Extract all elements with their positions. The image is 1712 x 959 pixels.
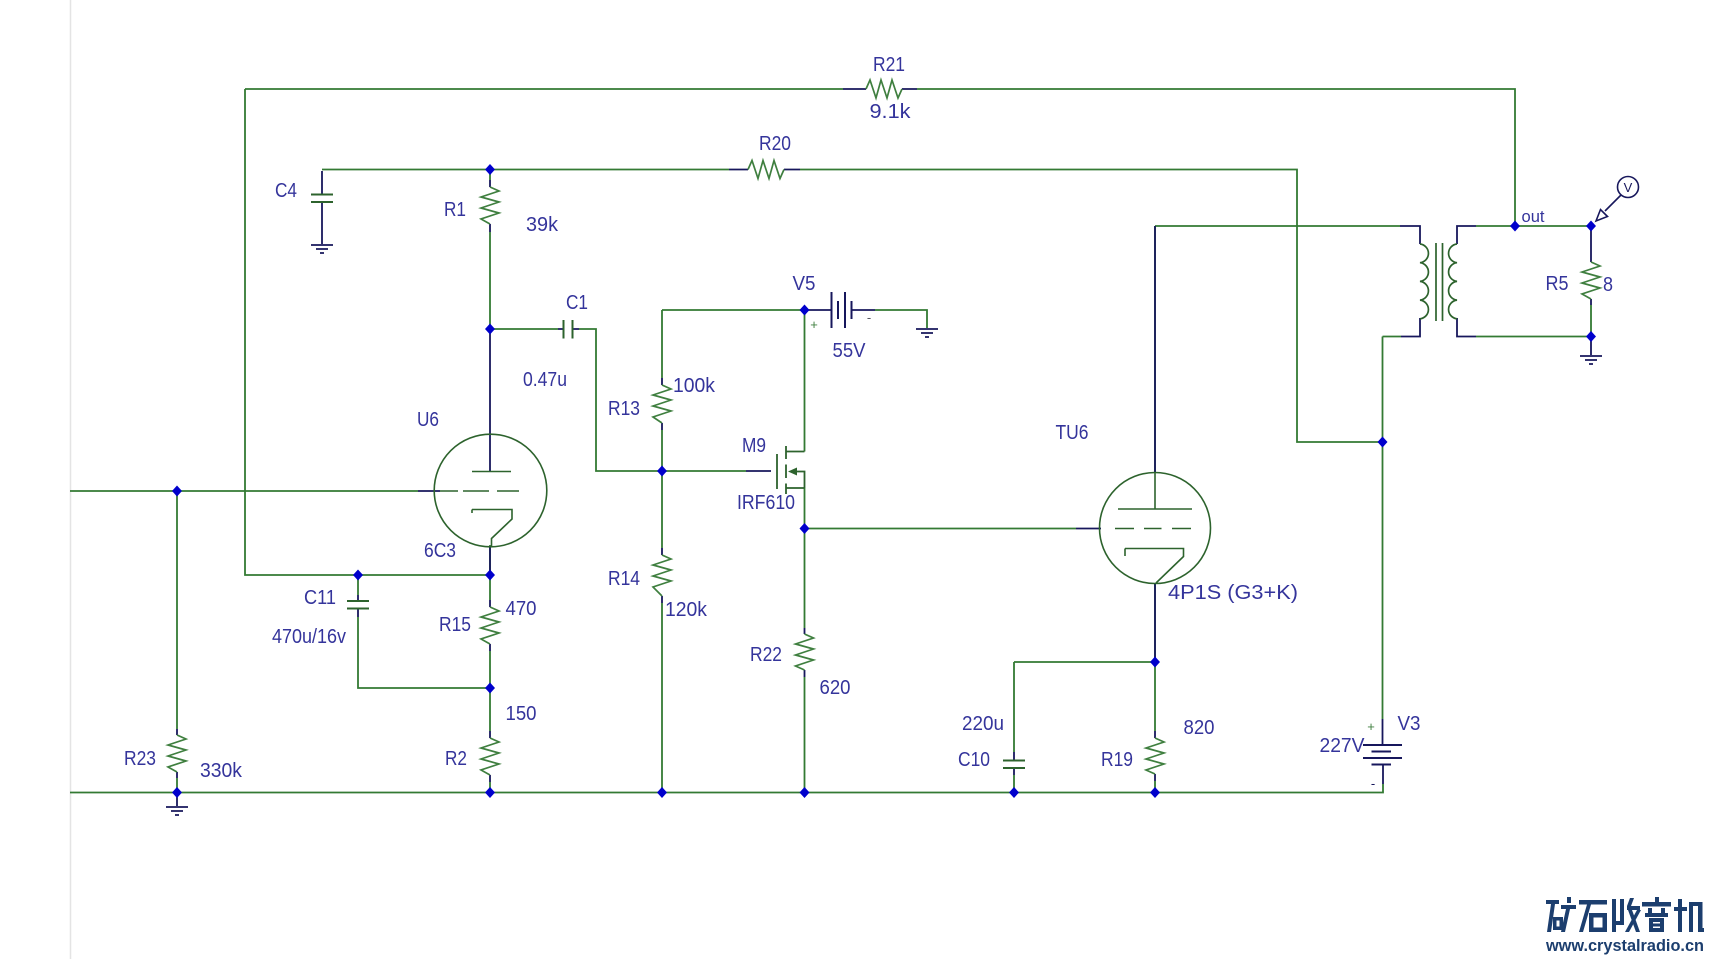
capacitor C1 plates [564,320,573,339]
ground under R23 [166,807,188,815]
resistor R22 leads [804,628,806,677]
resistor R14 leads [661,548,663,603]
capacitor C10 plates [1003,761,1025,769]
wire TU6 plate lead upper [1154,226,1156,473]
resistor R1 leads [489,180,491,232]
battery V3 top lead [1382,719,1384,744]
node C10 bus [1009,787,1019,798]
M9 gate lead [746,470,771,472]
svg-text:150: 150 [506,703,537,725]
ground lead below R23 [176,793,178,807]
navy lead stubs [177,89,1591,806]
wire C10 bottom lead [1013,775,1015,793]
node V5/drain [800,305,810,316]
svg-text:R15: R15 [439,614,471,636]
node R22 bus [800,787,810,798]
resistor R13 body [653,385,671,423]
resistor R22 body [796,634,814,670]
resistor R5 leads [1590,226,1592,305]
wire V5 right to ground [875,310,927,328]
svg-text:TU6: TU6 [1056,422,1089,444]
svg-text:4P1S (G3+K): 4P1S (G3+K) [1168,582,1298,604]
wire secondary top to out [1476,225,1591,227]
wire gate node to M9 [662,470,746,472]
node R20/R1/C4 [485,164,495,175]
transformer primary bottom lead navy [1401,318,1420,337]
wire R15 bottom [489,651,491,731]
faint page fold line [70,0,72,959]
svg-text:V3: V3 [1398,713,1421,735]
node R2 bus [485,787,495,798]
svg-text:120k: 120k [665,599,708,621]
TU6 plate lead navy [1154,226,1156,473]
wire M9 source down to node [804,488,806,529]
svg-text:R20: R20 [759,133,791,155]
svg-text:227V: 227V [1320,735,1366,757]
svg-text:+: + [1367,719,1375,734]
capacitor C11 leads [357,595,359,617]
resistor R5 body [1582,262,1600,299]
svg-text:620: 620 [820,677,851,699]
wire R23 top [176,491,178,729]
wire R19 top [1154,662,1156,731]
svg-text:R5: R5 [1546,273,1569,295]
wire R13 row to V5 [662,309,804,311]
wire R19 bottom [1154,781,1156,793]
svg-text:IRF610: IRF610 [737,492,795,514]
char yin [1642,897,1671,932]
node R5 bottom [1586,331,1596,342]
wire C11 top lead [357,575,359,595]
resistor R21 leads [843,88,917,90]
node R14 bus [657,787,667,798]
wire TU6 cathode lead [1154,583,1156,662]
wire R14 bottom [661,603,663,793]
svg-text:www.crystalradio.cn: www.crystalradio.cn [1545,937,1704,955]
svg-text:-: - [1371,776,1375,791]
resistor R15 body [481,607,499,644]
CAPACITOR PLATES [311,195,1025,769]
svg-text:R14: R14 [608,568,640,590]
transformer primary top lead navy [1400,226,1420,244]
wire R22 bottom [804,677,806,793]
svg-text:R13: R13 [608,398,640,420]
svg-text:0.47u: 0.47u [523,369,567,391]
resistor R20 body [748,161,784,179]
U6 plate lead navy [489,329,491,472]
wire cathode node row [1014,661,1155,663]
svg-text:V: V [1624,180,1633,195]
svg-text:C4: C4 [275,180,297,202]
char shi [1579,900,1607,932]
svg-text:8: 8 [1603,274,1613,296]
wire R22 top [804,529,806,629]
transformer TX secondary winding [1449,244,1457,319]
svg-text:M9: M9 [742,435,766,457]
wire input row [70,490,418,492]
char kuang [1546,897,1576,932]
U6 cathode lead navy [489,547,491,575]
wire R5 bottom stub [1590,305,1592,337]
resistor R14 body [653,555,671,596]
wire secondary bottom row [1476,336,1591,338]
svg-text:820: 820 [1184,717,1215,739]
battery V3 bottom lead [1382,765,1384,784]
transformer secondary top lead navy [1457,226,1476,244]
resistor R19 leads [1154,731,1156,781]
svg-text:U6: U6 [417,409,439,431]
svg-text:C11: C11 [304,587,336,609]
resistor R20 leads [729,169,800,171]
svg-text:9.1k: 9.1k [870,101,912,123]
capacitor C4 plates [311,195,333,203]
svg-text:R23: R23 [124,748,156,770]
triode U6 [434,434,547,547]
resistor R15 leads [489,600,491,651]
voltmeter probe [1596,177,1639,222]
char shou [1612,898,1641,932]
wire R1 top stub [489,170,491,181]
mosfet M9 arrow [788,468,797,476]
wire primary bottom [1383,336,1402,338]
svg-text:R21: R21 [873,54,905,76]
svg-text:39k: 39k [526,214,559,236]
ground lead below R5 node [1590,337,1592,356]
node R23 bus [172,787,182,798]
svg-text:470u/16v: 470u/16v [272,626,346,648]
node source [800,523,810,534]
node gate [657,466,667,477]
wire TU6 plate row [1155,225,1400,227]
tube TU6 [1100,473,1211,584]
transformer core [1436,243,1443,321]
wire top feedback row left segment [245,88,843,90]
svg-text:C1: C1 [566,292,588,314]
capacitor C10 leads [1013,752,1015,775]
TU6 grid lead navy [1076,528,1101,530]
ZIGZAG RESISTOR BODIES (green) [168,80,1600,775]
wire R13 top lead [661,310,663,378]
svg-text:100k: 100k [673,375,716,397]
resistor R2 body [481,738,499,775]
ground under R5 [1580,356,1602,364]
node R15/C11/R2 [485,683,495,694]
wire C1 right to gate node [579,329,662,471]
wire C1 left [490,328,558,330]
wire R23 bottom [176,778,178,793]
node cathode U6 [485,570,495,581]
BATTERY V5 plates [832,292,852,328]
resistor R21 body [866,80,902,98]
wire left drop from top corner [245,89,490,575]
ground under C4 [311,245,333,253]
resistor R23 body [168,735,186,772]
svg-text:6C3: 6C3 [424,540,456,562]
resistor R23 leads [176,729,178,778]
mosfet M9 [777,446,805,494]
svg-text:220u: 220u [962,713,1004,735]
wire R2 bottom [489,782,491,793]
capacitor C4 lead top [321,171,323,194]
transformer TX primary winding [1420,244,1428,319]
capacitor C11 plates [347,601,369,609]
svg-text:-: - [867,310,871,325]
battery V5 leads [805,309,876,311]
svg-text:+: + [810,317,818,332]
ground at V5 [916,329,938,337]
U6 grid lead [418,490,440,492]
capacitor C4 lead bottom [321,203,323,245]
svg-text:C10: C10 [958,749,990,771]
wire R13 bottom [661,430,663,471]
resistor R19 body [1146,738,1164,774]
svg-text:55V: 55V [833,340,867,362]
char ji [1674,899,1704,932]
svg-text:R2: R2 [445,748,467,770]
wire V3 vertical [1382,337,1384,720]
WATERMARK 矿石收音机 drawn as shapes [1546,897,1704,932]
transformer secondary bottom lead navy [1457,318,1476,337]
wire source node to TU6 grid [805,528,1077,530]
wire M9 drain up to V5 node [804,310,806,452]
BATTERY V3 plates [1363,745,1402,765]
node out [1510,221,1520,232]
node R20/V3 [1378,437,1388,448]
resistor R13 leads [661,378,663,430]
resistor R1 body [481,187,499,224]
svg-text:V5: V5 [793,273,816,295]
svg-text:out: out [1522,207,1545,226]
wire C10 top lead [1013,662,1015,752]
capacitor C1 leads [558,328,579,330]
svg-text:330k: 330k [200,760,243,782]
wire R1 bottom to C1 node [489,232,491,329]
node R19 bus [1150,787,1160,798]
TU6 cathode lead navy [1154,584,1156,662]
node voltmeter [1586,221,1596,232]
wire R14 top [661,471,663,548]
wire R20 row [322,170,1383,443]
node R1/C1/plate [485,324,495,335]
svg-text:470: 470 [506,598,537,620]
wire bottom bus [70,784,1383,793]
wire top feedback row right segment [917,89,1515,226]
node C11 top [353,570,363,581]
node input [172,486,182,497]
wire C11 bottom lead to R15 node [358,617,490,688]
node TU6 cathode [1150,657,1160,668]
svg-text:R1: R1 [444,199,466,221]
resistor R2 leads [489,731,491,782]
svg-text:R19: R19 [1101,749,1133,771]
wire U6 cathode to R15 [489,545,491,600]
svg-text:R22: R22 [750,644,782,666]
